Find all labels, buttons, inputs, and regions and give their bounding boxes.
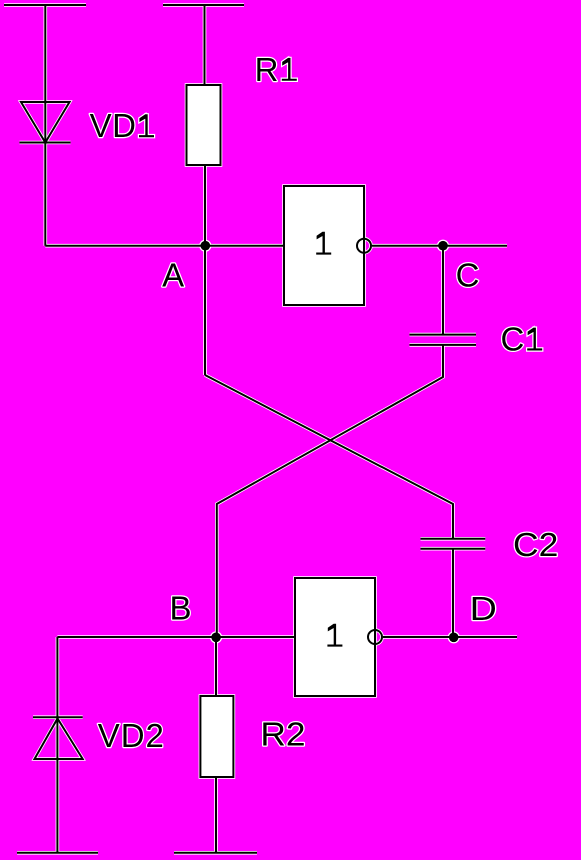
node B [211,633,221,643]
wire node C down to capacitor C1 [442,246,444,335]
label R1 [255,51,297,88]
ground rail bottom-right [174,852,257,854]
wire R1 to node A [204,165,206,246]
svg-text:B: B [170,589,192,626]
inverter bubble U2 [368,630,382,644]
wire R2 to ground rail [215,777,217,853]
svg-text:VD: VD [90,107,137,144]
resistor R1 [187,85,221,165]
wire C2 to node D [452,549,454,637]
capacitor C1 [410,335,477,345]
diode VD2 [33,717,83,759]
svg-text:C2: C2 [513,526,558,563]
diode VD1 [20,102,71,143]
label C1 [501,321,543,358]
svg-text:C: C [456,257,480,294]
wire node B corner down to ground rail [56,637,58,853]
wire node A bend cross diagonal to capacitor C2 [205,375,453,539]
node D [449,633,459,643]
capacitor C2 [421,539,486,549]
svg-text:C: C [501,321,525,358]
label VD1 [90,107,154,144]
wire U1 output to the right [372,245,507,247]
node A [201,241,211,251]
wire rail to resistor R1 [204,5,206,85]
logic gate U1 [284,186,364,305]
ground rail bottom-left [17,852,98,854]
wire C1 cross diagonal to node B [217,345,443,637]
wire U2 output to the right [383,636,517,638]
power rail top-left [4,4,86,6]
power rail top-right [163,4,244,6]
wire node A horizontal to gate U1 input [45,245,284,247]
logic gate U2 [295,578,375,696]
svg-text:D: D [470,590,497,627]
svg-text:VD2: VD2 [98,717,165,754]
wire node B down to resistor R2 [215,637,217,696]
svg-text:A: A [162,257,184,294]
wire VD1 vertical from rail to node A corner [44,5,46,246]
wire node B horizontal to gate U2 input [57,636,295,638]
svg-text:R2: R2 [260,716,305,753]
inverter bubble U1 [357,239,371,253]
node C [438,241,448,251]
resistor R2 [200,696,233,777]
svg-text:R: R [255,51,279,88]
wire node A down to bend [204,246,206,375]
